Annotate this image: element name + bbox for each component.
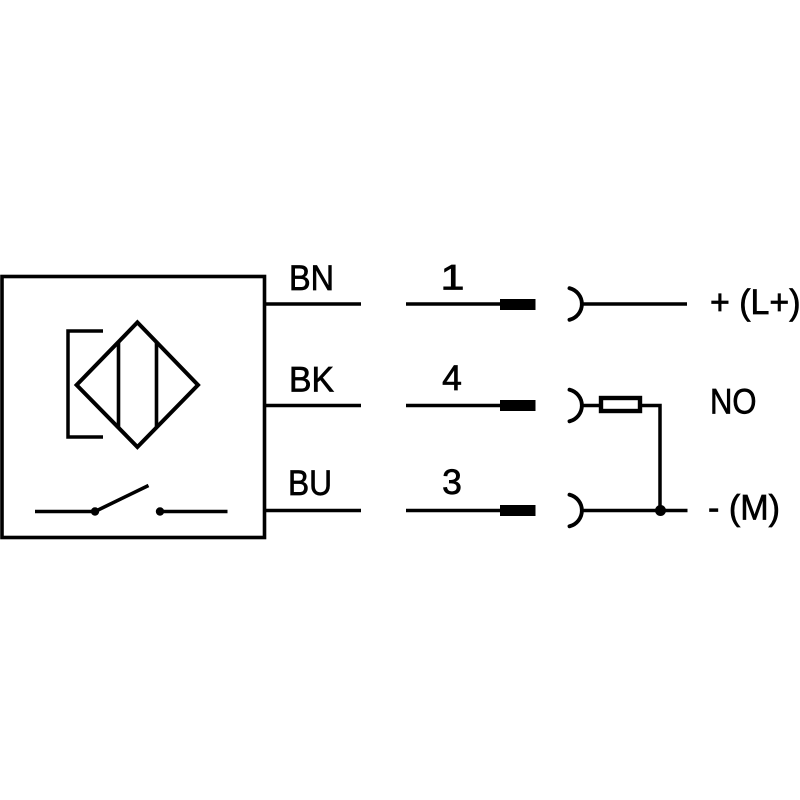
diamond right chord [155, 342, 159, 428]
wire socket 4 to load [582, 404, 600, 408]
socket contact pin 4 [570, 390, 582, 422]
switch left contact dot [91, 507, 99, 515]
socket contact pin 1 [570, 288, 582, 320]
wire pin1 segment [406, 302, 500, 306]
svg-text:- (M): - (M) [708, 488, 780, 528]
switch blade [95, 486, 149, 512]
svg-text:+ (L+): + (L+) [710, 282, 800, 322]
svg-text:3: 3 [442, 462, 462, 502]
svg-text:NO: NO [710, 381, 757, 421]
load resistor [601, 398, 640, 411]
diamond left chord [117, 342, 121, 428]
switch right lead [160, 510, 228, 514]
sensor actuation bracket [68, 331, 103, 437]
switch left lead [35, 510, 93, 514]
wire BK segment 1 [265, 404, 362, 408]
switch right contact dot [156, 507, 164, 515]
pin 4 terminal block [500, 400, 536, 411]
wire BU segment 1 [265, 509, 362, 513]
svg-text:1: 1 [441, 258, 465, 298]
svg-text:BN: BN [289, 258, 334, 298]
wire load to corner and down [641, 406, 660, 511]
wire BN segment 1 [265, 302, 362, 306]
svg-text:BK: BK [289, 359, 334, 399]
wire pin3 segment [406, 509, 500, 513]
wire pin4 segment [406, 404, 500, 408]
socket contact pin 3 [570, 495, 582, 527]
wire from socket 1 [582, 302, 688, 306]
pin 3 terminal block [500, 505, 536, 516]
svg-text:BU: BU [288, 463, 332, 503]
pin 1 terminal block [500, 299, 536, 310]
junction node [655, 505, 666, 516]
sensor body box [2, 277, 265, 538]
proximity sensor diamond [77, 322, 198, 447]
wire from socket 3 [582, 509, 688, 513]
svg-text:4: 4 [442, 358, 462, 398]
